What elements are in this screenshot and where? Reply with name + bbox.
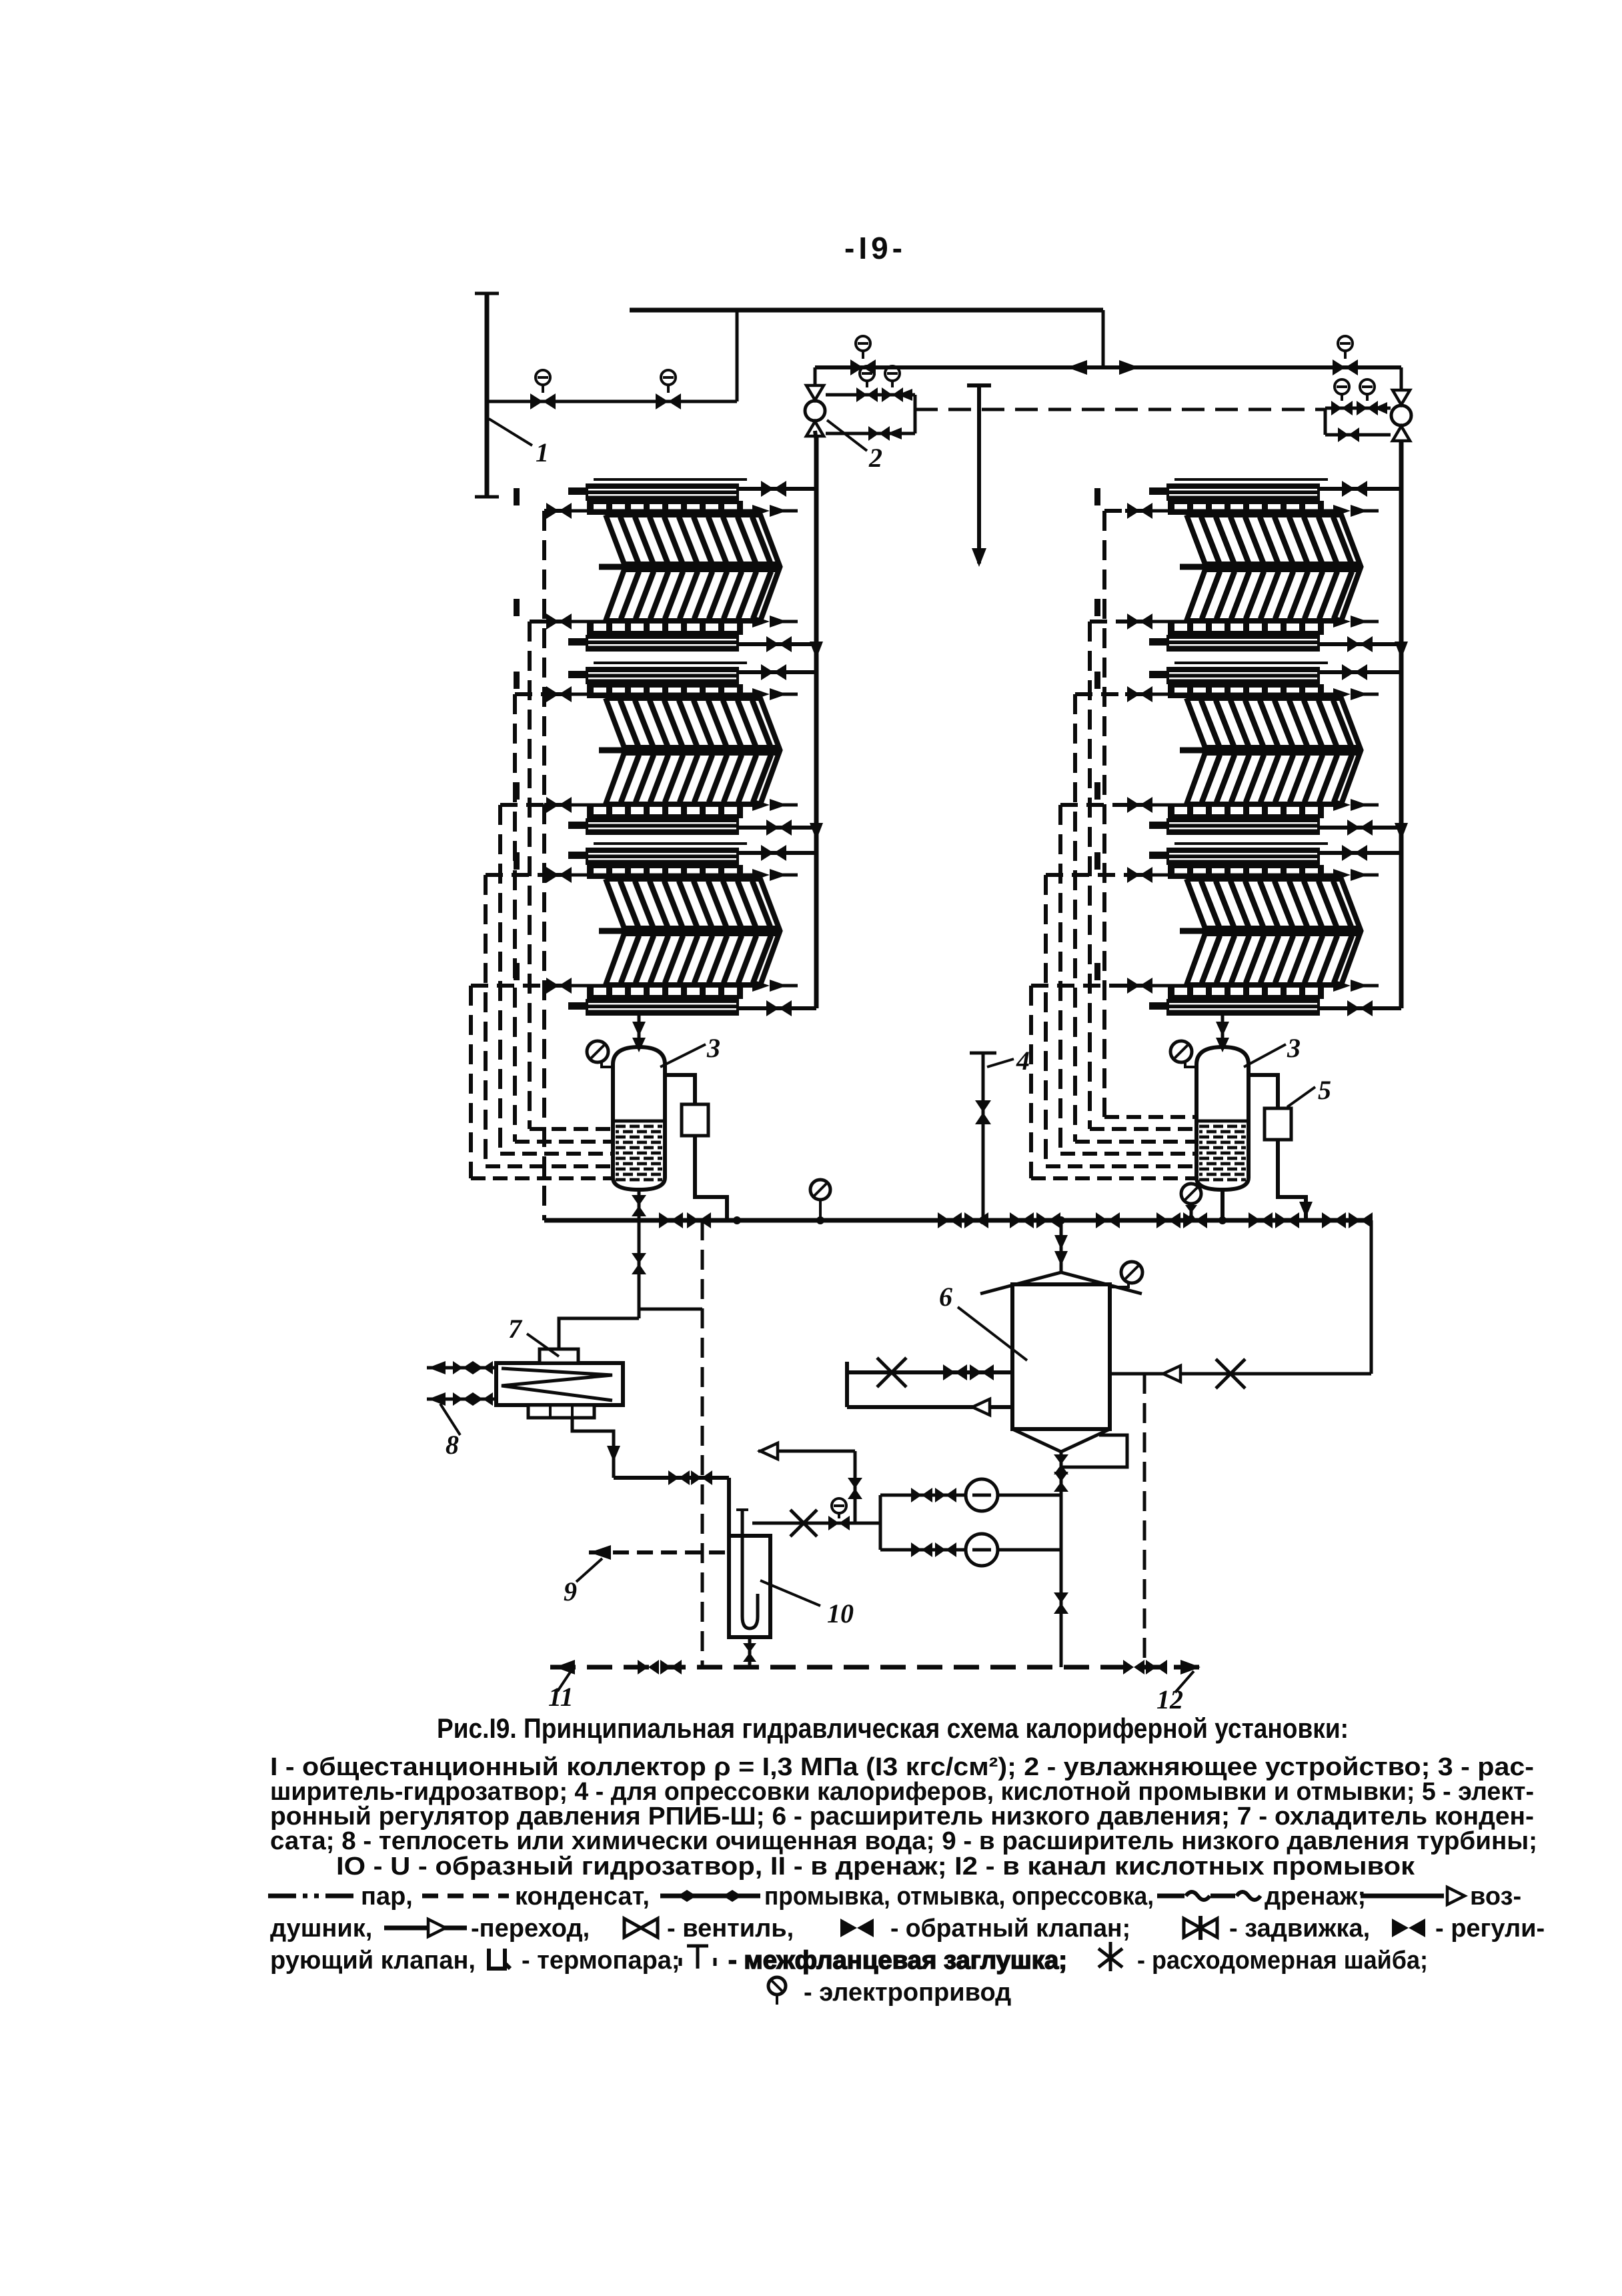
valve pair on main line x1419	[938, 1212, 950, 1228]
valve pair on main line x1890	[1249, 1212, 1261, 1228]
electronic pressure regulator 5 (box)	[1249, 1075, 1278, 1108]
svg-text:I - общестанционный коллектор: I - общестанционный коллектор ρ = I,3 МП…	[270, 1753, 1534, 1781]
check triangle above humidifier 2	[806, 385, 824, 400]
node: label 6 leader	[958, 1307, 1027, 1360]
legend: thermocouple icon	[489, 1949, 510, 1969]
valve pair on main line x1006	[659, 1212, 671, 1228]
valve R bank2 top outlet	[1342, 664, 1355, 680]
humidifier 2 (circle)	[805, 401, 825, 421]
check arrows above left tank 3	[638, 1016, 641, 1047]
calorifier bank R2	[1144, 663, 1379, 835]
thermocouple tick	[1094, 599, 1100, 616]
wire: R feed line bank3 y1478	[1031, 984, 1125, 988]
node: label 10 leader	[760, 1580, 820, 1606]
bus line R4 (dashed vertical)	[1058, 805, 1062, 1154]
collector 1 (vertical with end caps)	[485, 293, 490, 497]
valve R bank2 bottom outlet	[1347, 820, 1360, 836]
valve under gauge	[1185, 1205, 1197, 1213]
valve on L feed bank1	[546, 614, 559, 630]
wire: vertical x1282	[854, 1451, 857, 1523]
wire: dashed link between bypasses y612	[915, 408, 1325, 411]
regulator box at left tank	[665, 1075, 695, 1104]
wire: R bank3 top outlet	[1320, 851, 1401, 855]
valve L bank2 bottom outlet	[766, 820, 779, 836]
legend: transition line sample	[384, 1926, 467, 1931]
node: label 12 leader	[1175, 1671, 1194, 1692]
wire: cooler bottom outlet	[572, 1418, 614, 1478]
legend: check valve icon	[840, 1919, 857, 1937]
valve with handwheel x1294	[850, 359, 863, 375]
wire: right tank bottom to main line	[1221, 1190, 1225, 1220]
node: label 4 leader	[987, 1059, 1014, 1067]
wire: x958 drop from main line	[638, 1220, 641, 1318]
valve with handwheel x2017	[1333, 359, 1345, 375]
svg-text:- обратный клапан;: - обратный клапан;	[890, 1915, 1130, 1943]
U-shaped hydroseal 10 (outer box)	[729, 1536, 770, 1637]
cooler bottom boxes	[528, 1405, 594, 1418]
valve L bank2 top outlet	[761, 664, 774, 680]
svg-text:10: 10	[827, 1598, 854, 1628]
legend: blank flange icon	[679, 1958, 682, 1966]
wire: collector branch y602	[487, 400, 737, 403]
wire: L bank3 top outlet	[739, 851, 816, 855]
wire: bus L5 elbow into tank	[486, 1164, 614, 1168]
check triangle below humidifier 2	[806, 421, 824, 436]
pressure-test stub x1468 (T cap, arrow down)	[977, 385, 981, 563]
wire: bus L3 elbow into tank	[515, 1140, 614, 1144]
wire: drop x1093 into U-seal	[727, 1478, 731, 1536]
svg-text:- межфланцевая заглушка;: - межфланцевая заглушка;	[728, 1947, 1067, 1975]
wire: R bank2 bottom outlet	[1320, 826, 1401, 830]
heat-supply line A (to cooler)	[427, 1366, 496, 1370]
heat-supply line B (to cooler)	[427, 1398, 496, 1401]
svg-text:дренаж;: дренаж;	[1265, 1883, 1366, 1911]
svg-text:8: 8	[446, 1430, 459, 1460]
node: label 3 leader (right)	[1244, 1044, 1286, 1067]
wire: left bus 1 to main line	[542, 511, 546, 1220]
svg-text:5: 5	[1318, 1075, 1331, 1105]
legend: valve icon	[624, 1919, 658, 1937]
wire: L bank3 bottom outlet	[739, 1006, 816, 1010]
drain bus vertical x1053 (dashed)	[701, 1220, 704, 1667]
valve on main line x1661	[1096, 1212, 1108, 1228]
legend: vent line sample	[1361, 1894, 1444, 1899]
valve R bank3 bottom outlet	[1347, 1000, 1360, 1016]
bypass valves with handwheels	[856, 387, 867, 402]
valve under left tank	[632, 1195, 646, 1206]
thermocouple tick	[1094, 672, 1100, 689]
wire: U-seal bottom to drain	[748, 1637, 752, 1667]
svg-text:ширитель-гидрозатвор; 4 - для: ширитель-гидрозатвор; 4 - для опрессовки…	[270, 1778, 1534, 1806]
wire: cooler top connection	[559, 1318, 639, 1349]
pump suction/discharge loop	[880, 1494, 1061, 1497]
legend: electric drive icon	[768, 1977, 786, 1995]
svg-text:- расходомерная шайба;: - расходомерная шайба;	[1137, 1947, 1428, 1975]
transfer line with left arrow y2176	[758, 1450, 855, 1453]
svg-text:рующий клапан,: рующий клапан,	[270, 1947, 476, 1975]
bus line R1 (dashed vertical)	[1102, 511, 1106, 1117]
valve on R feed bank1	[1127, 614, 1140, 630]
wire: L bank1 bottom outlet	[739, 642, 816, 646]
test line 4 (T cap vertical)	[982, 1053, 985, 1220]
bus line L2 (dashed vertical)	[528, 622, 532, 1129]
valve pair on main line x1750	[1156, 1212, 1168, 1228]
wire: R feed line bank1 y932	[1090, 620, 1125, 624]
valve on line 4	[975, 1100, 991, 1112]
svg-text:пар,: пар,	[361, 1883, 413, 1911]
wire: L bank2 top outlet	[739, 670, 816, 674]
bypass lower valve	[868, 426, 879, 441]
svg-text:промывка, отмывка, опрессовка,: промывка, отмывка, опрессовка,	[764, 1883, 1154, 1911]
wire: L feed line bank2 y1207	[500, 803, 544, 807]
U-tube inside	[742, 1510, 758, 1628]
wire: R bank1 top outlet	[1320, 487, 1401, 491]
check triangle above right humidifier	[1393, 390, 1410, 405]
svg-text:сата; 8 - теплосеть или химиче: сата; 8 - теплосеть или химически очищен…	[270, 1827, 1537, 1855]
wire: jog y1963	[639, 1308, 702, 1311]
wire: bus R4 elbow into tank	[1060, 1152, 1197, 1156]
node: label 1 leader	[489, 419, 532, 445]
svg-text:- вентиль,: - вентиль,	[667, 1915, 794, 1943]
gauge near right tank bottom	[1181, 1184, 1201, 1204]
valve on L feed bank3	[546, 978, 559, 994]
node: label 2 leader	[827, 420, 867, 451]
valve L bank1 bottom outlet	[766, 636, 779, 652]
line 9 to turbine expander (dashed, arrow)	[589, 1550, 729, 1554]
wire: washout line into tank 6 (left, with orifice)	[847, 1370, 1012, 1374]
valve R bank1 bottom outlet	[1347, 636, 1360, 652]
bus line L4 (dashed vertical)	[498, 805, 502, 1154]
wire: L feed line bank3 y1312	[486, 873, 544, 877]
node: label 8 leader	[440, 1404, 460, 1435]
valve with handwheel on branch (x1002)	[656, 393, 668, 409]
wire: L bank2 bottom outlet	[739, 826, 816, 830]
wire: R bank2 top outlet	[1320, 670, 1401, 674]
node: label 5 leader	[1287, 1087, 1315, 1107]
wire: bus R5 elbow into tank	[1046, 1164, 1197, 1168]
wire: R feed line bank2 y1041	[1075, 692, 1125, 696]
node: label 9 leader	[576, 1558, 602, 1582]
valve on R feed bank2	[1127, 686, 1140, 702]
thermocouple tick	[1094, 782, 1100, 800]
wire: drop to right humidifier	[1400, 367, 1403, 395]
wire: humidifier 2 down to riser L	[815, 431, 816, 441]
legend: steam line sample	[268, 1894, 357, 1899]
valve on R feed bank3	[1127, 978, 1140, 994]
bus line L3 (dashed vertical)	[513, 694, 517, 1142]
thermocouple tick	[514, 782, 520, 800]
valve on L feed bank1	[546, 503, 559, 519]
svg-text:- задвижка,: - задвижка,	[1229, 1915, 1370, 1943]
valve with handwheel on west branch	[828, 1516, 839, 1530]
svg-text:- электропривод: - электропривод	[804, 1979, 1011, 2007]
valve pair on drain x969	[638, 1660, 648, 1674]
valve on L feed bank2	[546, 797, 559, 813]
svg-text:душник,: душник,	[270, 1915, 372, 1943]
node: label 3 leader (left)	[660, 1044, 706, 1067]
valve L bank3 bottom outlet	[766, 1000, 779, 1016]
calorifier bank L3	[563, 844, 798, 1016]
thermocouple tick	[514, 963, 520, 980]
svg-text:7: 7	[508, 1314, 523, 1344]
calorifier bank R3	[1144, 844, 1379, 1016]
wire: R feed line bank3 y1312	[1046, 873, 1125, 877]
valve on L feed bank2	[546, 686, 559, 702]
valve pair on drain x1751	[1123, 1660, 1134, 1674]
wire: main line down to tank 6	[1060, 1220, 1063, 1274]
wire: return line into tank 6 lower left	[847, 1405, 1012, 1409]
wire: second header y551	[815, 365, 1401, 369]
valve on R feed bank3	[1127, 867, 1140, 883]
wire: R feed line bank2 y1207	[1060, 803, 1125, 807]
thermocouple tick	[1094, 852, 1100, 870]
valve on tank 6 drain x1591 y2400	[1054, 1592, 1068, 1603]
flow arrow down on riser R	[1395, 642, 1408, 659]
bus line R5 (dashed vertical)	[1044, 875, 1048, 1166]
wire: R feed line bank1 y766	[1104, 509, 1125, 513]
svg-text:1: 1	[536, 437, 549, 467]
wire: pump loop west branch with orifice	[752, 1522, 880, 1525]
thermocouple tick	[514, 852, 520, 870]
node: label 7 leader	[527, 1334, 559, 1356]
main condensate header y1830	[544, 1218, 1371, 1223]
svg-text:3: 3	[1287, 1033, 1301, 1063]
svg-text:IО - U - образный гидрозатвор: IО - U - образный гидрозатвор, II - в др…	[336, 1853, 1415, 1881]
legend: drainage line sample	[1157, 1894, 1235, 1899]
wire: top header line y465	[630, 308, 1103, 313]
gauge stub on main line x1230	[819, 1199, 822, 1220]
legend: condensate line sample	[422, 1894, 509, 1899]
valve on R feed bank1	[1127, 503, 1140, 519]
wire: left tank bottom to main line	[638, 1190, 641, 1220]
valves under tank 6	[1054, 1454, 1068, 1464]
wire: R bank1 bottom outlet	[1320, 642, 1401, 646]
calorifier bank L1	[563, 479, 798, 652]
gauge on tank 6	[1110, 1282, 1128, 1287]
svg-text:воз-: воз-	[1470, 1883, 1521, 1911]
wire: right riser down from main line	[1370, 1220, 1373, 1374]
junction dots on main line	[733, 1216, 741, 1224]
legend: gate valve icon	[1184, 1919, 1217, 1937]
bus line L5 (dashed vertical)	[484, 875, 488, 1166]
svg-text:2: 2	[868, 443, 882, 473]
wire: bus L4 elbow into tank	[500, 1152, 614, 1156]
expander-hydroseal tank 3 (left)	[613, 1047, 665, 1190]
valves on pump line 2	[911, 1542, 922, 1557]
expander-hydroseal tank 3 (right)	[1196, 1047, 1249, 1190]
pump P2	[966, 1534, 998, 1566]
drain riser (dashed) right of tank 6	[1143, 1374, 1146, 1667]
right bypass lower valve	[1338, 427, 1349, 442]
wire: bus L2 elbow into tank	[530, 1127, 614, 1131]
valve R bank3 top outlet	[1342, 845, 1355, 861]
wire: L feed line bank2 y1041	[515, 692, 544, 696]
wire: bus R1 elbow into tank	[1104, 1115, 1197, 1119]
calorifier bank R1	[1144, 479, 1379, 652]
bypass loop left of right humidifier	[1325, 407, 1391, 410]
svg-text:- термопара;: - термопара;	[522, 1947, 680, 1975]
wire: bus R3 elbow into tank	[1075, 1140, 1197, 1144]
bypass loop left of item 2	[826, 393, 915, 397]
svg-text:4: 4	[1016, 1046, 1030, 1076]
bus line R6 (dashed vertical)	[1029, 986, 1033, 1178]
gauge on left tank 3	[602, 1060, 614, 1067]
riser R (inner vertical)	[1399, 433, 1404, 1008]
wire: bus R6 elbow into tank	[1031, 1176, 1197, 1180]
valve on x958	[632, 1253, 646, 1264]
drain header 11-12 (dashed)	[550, 1665, 1204, 1670]
cooler top box	[540, 1349, 578, 1363]
wire: L feed line bank3 y1478	[471, 984, 544, 988]
legend: washout line sample	[660, 1894, 760, 1899]
tank 6 bottom cone	[1012, 1429, 1110, 1452]
svg-text:9: 9	[564, 1576, 577, 1606]
bus line L1 (dashed vertical)	[542, 511, 546, 1220]
svg-text:Рис.I9. Принципиальная гидравл: Рис.I9. Принципиальная гидравлическая сх…	[437, 1712, 1349, 1744]
check arrow right on header	[1119, 360, 1139, 375]
flow arrow down on riser L	[810, 642, 823, 659]
valves on pump line 1	[911, 1488, 922, 1502]
legend: control valve icon	[1392, 1919, 1409, 1937]
valve L bank1 top outlet	[761, 481, 774, 497]
right humidifier circle	[1391, 405, 1411, 425]
wire: tank 6 right side line with orifice	[1110, 1372, 1371, 1376]
check arrow left on header	[1067, 360, 1087, 375]
svg-text:-I9-: -I9-	[844, 231, 906, 265]
valve on x1282	[848, 1478, 862, 1488]
check arrows above right tank 3	[1221, 1016, 1225, 1047]
thermocouple tick	[514, 488, 520, 505]
wire: bus R2 elbow into tank	[1090, 1127, 1197, 1131]
svg-text:12: 12	[1156, 1684, 1183, 1714]
wire: L feed line bank1 y932	[530, 620, 544, 624]
wire: L feed line bank1 y766	[542, 509, 546, 513]
node: label 11 leader	[558, 1671, 571, 1691]
legend: orifice icon	[1109, 1942, 1112, 1971]
valve R bank1 top outlet	[1342, 481, 1355, 497]
wire: drop from top line x1105	[736, 310, 739, 401]
calorifier bank L2	[563, 663, 798, 835]
check triangle below right humidifier	[1393, 426, 1410, 441]
wire: tank 6 bottom vertical	[1060, 1452, 1063, 1667]
thermocouple tick	[514, 672, 520, 689]
right bypass valves with handwheels	[1331, 401, 1342, 415]
bus line R2 (dashed vertical)	[1088, 622, 1092, 1129]
svg-text:- регули-: - регули-	[1435, 1915, 1545, 1943]
recirculation loop at tank 6 bottom	[1061, 1435, 1127, 1467]
svg-text:3: 3	[706, 1033, 720, 1063]
svg-text:6: 6	[939, 1282, 952, 1312]
thermocouple tick	[1094, 488, 1100, 505]
svg-text:ронный регулятор давления РПИБ: ронный регулятор давления РПИБ-Ш; 6 - ра…	[270, 1803, 1534, 1831]
svg-text:11: 11	[548, 1682, 574, 1712]
wire: y2216 to U-seal	[614, 1476, 729, 1480]
wire: R bank3 bottom outlet	[1320, 1006, 1401, 1010]
valve on L feed bank3	[546, 867, 559, 883]
wire: L bank1 top outlet	[739, 487, 816, 491]
svg-text:-переход,: -переход,	[471, 1915, 590, 1943]
valve with handwheel on branch (x814)	[530, 393, 543, 409]
wire: drop x1654 to second header	[1102, 310, 1105, 367]
gauge on right tank 3	[1185, 1060, 1197, 1067]
wire: bus L6 elbow into tank	[471, 1176, 614, 1180]
condensate cooler 7 (coil box)	[496, 1363, 623, 1405]
thermocouple tick	[514, 599, 520, 616]
valve L bank3 top outlet	[761, 845, 774, 861]
riser L (inner vertical)	[814, 433, 819, 1008]
valve pair on main line x1530	[1010, 1212, 1022, 1228]
wire: drop to humidifier 2	[814, 367, 817, 390]
svg-text:конденсат,: конденсат,	[515, 1883, 650, 1911]
thermocouple tick	[1094, 963, 1100, 980]
low-pressure expander tank 6	[980, 1272, 1142, 1294]
pump P1	[966, 1479, 998, 1511]
valve on R feed bank2	[1127, 797, 1140, 813]
bus line R3 (dashed vertical)	[1073, 694, 1077, 1142]
bus line L6 (dashed vertical)	[469, 986, 473, 1178]
check arrows above tank 6	[1054, 1235, 1068, 1250]
valve pair on main line x2014	[1322, 1212, 1334, 1228]
